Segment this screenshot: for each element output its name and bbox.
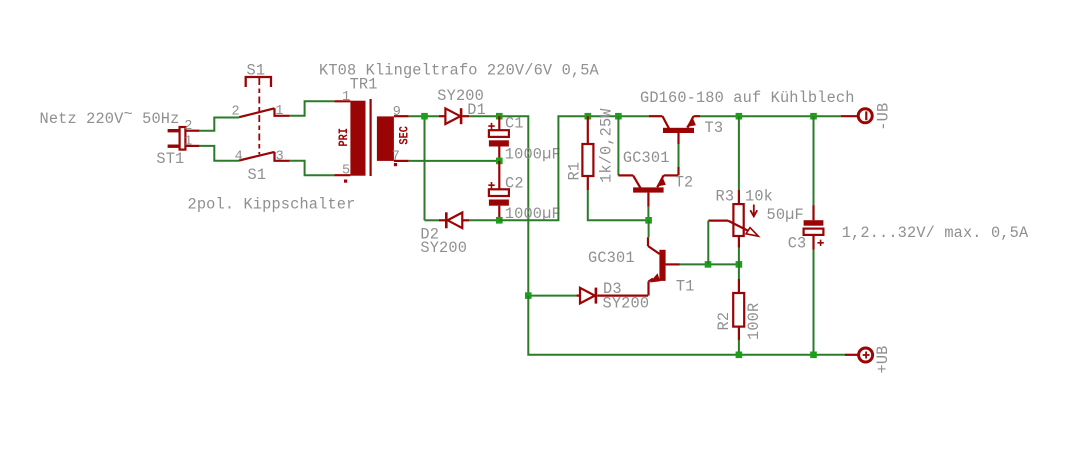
svg-text:100R: 100R: [745, 303, 763, 340]
junction D3 anode rail: [525, 292, 532, 299]
svg-text:TR1: TR1: [350, 75, 378, 93]
transformer TR1 secondary polarity dot: [394, 163, 397, 166]
potentiometer R3: [708, 116, 758, 264]
terminal -UB: [841, 109, 872, 123]
svg-text:+UB: +UB: [874, 346, 892, 374]
transistor T1: [648, 220, 680, 295]
resistor R1: [582, 116, 593, 190]
svg-text:C1: C1: [505, 115, 524, 133]
svg-text:3: 3: [276, 150, 284, 165]
wire S1 pin3 to TR1 pin5: [290, 161, 335, 175]
connector ST1 body: [168, 127, 200, 150]
svg-text:ST1: ST1: [156, 150, 184, 168]
terminal +UB: [845, 348, 873, 362]
svg-text:7: 7: [392, 150, 400, 165]
svg-text:SY200: SY200: [603, 295, 650, 313]
wire S1 pin1 to TR1 pin1: [290, 101, 335, 116]
junction R2 top node: [736, 261, 743, 268]
junction R2 bottom rail: [736, 352, 743, 359]
switch S1 coupling bracket: [246, 77, 271, 87]
svg-text:R1: R1: [566, 162, 584, 181]
transistor T3: [649, 116, 700, 175]
svg-text:C3: C3: [788, 234, 807, 252]
svg-text:5: 5: [342, 163, 350, 178]
svg-text:9: 9: [393, 105, 401, 120]
wire R1 bottom to T2 base node: [588, 190, 649, 220]
transformer TR1 pin 1 lead: [334, 100, 350, 102]
junction R1 top: [585, 113, 592, 120]
junction C1 top: [496, 113, 503, 120]
transformer TR1 primary winding: [350, 101, 365, 176]
svg-text:SY200: SY200: [420, 239, 467, 257]
diode D2: [439, 212, 469, 228]
svg-text:C2: C2: [505, 175, 524, 193]
svg-text:1k/0,25W: 1k/0,25W: [598, 108, 616, 183]
svg-text:1: 1: [342, 90, 350, 105]
wire node A down to D2: [424, 116, 426, 220]
transistor T2: [618, 116, 678, 220]
wire +rail to D3 anode: [528, 295, 576, 297]
capacitor C1: [488, 116, 509, 161]
switch S1 pole B lever: [239, 152, 274, 161]
capacitor C2: [488, 161, 509, 220]
wire T1 base to R3 wiper node: [680, 263, 739, 265]
switch S1 pole A throw contact: [275, 108, 290, 116]
svg-text:PRI: PRI: [336, 128, 351, 147]
junction R3 top rail: [736, 113, 743, 120]
wire TR1 pin9 to node A: [409, 115, 439, 117]
svg-text:2: 2: [232, 105, 240, 120]
svg-text:1: 1: [184, 134, 192, 149]
wire ST1 pin2 to S1 pin2: [199, 118, 239, 131]
svg-text:1: 1: [275, 104, 283, 119]
svg-text:10k: 10k: [745, 188, 773, 206]
transformer TR1 primary polarity dot: [344, 180, 347, 183]
junction C1 bottom C2 top: [496, 158, 503, 165]
wire ST1 pin1 to S1 pin4: [199, 146, 239, 161]
wire node A to D2 cathode: [425, 219, 439, 221]
svg-text:SEC: SEC: [397, 126, 412, 145]
svg-text:1,2...32V/ max. 0,5A: 1,2...32V/ max. 0,5A: [842, 224, 1029, 242]
wire +rail down to bottom rail: [528, 296, 845, 355]
wire T3 emitter to -UB rail: [700, 115, 841, 117]
junction node A: [421, 113, 428, 120]
label 50uF C3 column / capacitor C3: [804, 116, 824, 355]
svg-text:R3: R3: [716, 188, 735, 206]
transformer TR1 pin 5 lead: [334, 174, 350, 176]
wire C2 bottom to negative rail riser: [499, 116, 648, 220]
transformer TR1 core: [370, 99, 372, 176]
svg-text:R2: R2: [715, 312, 733, 331]
svg-text:T2: T2: [675, 174, 694, 192]
svg-text:T1: T1: [676, 277, 695, 295]
switch S1 pole B throw contact: [275, 152, 290, 161]
transformer TR1 pin 7 lead: [394, 160, 409, 162]
svg-text:-UB: -UB: [875, 103, 893, 131]
svg-text:1000µF: 1000µF: [505, 146, 561, 164]
diode D1: [439, 108, 469, 124]
svg-text:2pol. Kippschalter: 2pol. Kippschalter: [188, 196, 356, 214]
junction C3 bottom rail: [810, 352, 817, 359]
svg-text:S1: S1: [248, 166, 267, 184]
transformer TR1 pin 9 lead: [394, 115, 409, 117]
wire D1 cathode to C1 top node: [469, 115, 499, 117]
wire D2 anode to C2 bottom node: [469, 219, 499, 221]
wire C1 top node to +rail drop: [499, 116, 528, 295]
svg-text:GC301: GC301: [588, 249, 635, 267]
junction C2 bottom: [496, 217, 503, 224]
switch S1 pole A lever: [239, 108, 274, 117]
adjustment arrow glyph: [753, 205, 755, 216]
svg-text:GD160-180 auf Kühlblech: GD160-180 auf Kühlblech: [640, 89, 855, 107]
diode D3: [576, 288, 648, 304]
svg-text:2: 2: [184, 119, 192, 134]
svg-text:T3: T3: [705, 119, 724, 137]
svg-text:4: 4: [235, 150, 243, 165]
junction T2 base T1 collector: [645, 217, 652, 224]
wire TR1 pin7 to C1C2 midpoint: [409, 160, 500, 162]
resistor R2: [733, 264, 744, 354]
junction C3 top rail: [810, 113, 817, 120]
svg-text:GC301: GC301: [623, 149, 670, 167]
junction wiper node: [705, 261, 712, 268]
switch S1 coupling dashed line: [258, 78, 260, 154]
svg-text:50µF: 50µF: [767, 206, 804, 224]
transformer TR1 secondary winding: [377, 116, 394, 160]
junction T2 collector rail: [615, 113, 622, 120]
